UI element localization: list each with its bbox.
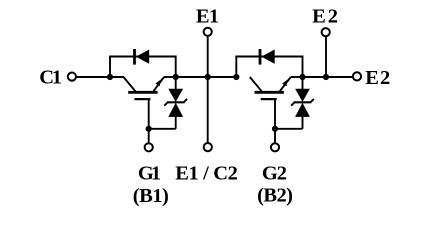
wire center rail E1/C2	[176, 76, 237, 78]
svg-text:G1: G1	[138, 162, 161, 184]
terminal C1	[68, 73, 76, 81]
terminal E1 (top)	[204, 28, 212, 36]
terminal E2 (right)	[353, 72, 361, 80]
node C1 junction	[107, 74, 113, 80]
wire collector-diode loop 1	[110, 57, 176, 79]
wire collector-diode loop 2	[236, 57, 302, 79]
wire E2 rail	[303, 76, 353, 78]
wire E1/C2 bus vertical	[207, 37, 209, 143]
transistor Q2 (IGBT)	[250, 77, 303, 99]
wire gate G2	[274, 99, 276, 142]
svg-text:(B2): (B2)	[257, 185, 293, 207]
diode D2 (free-wheeling, top)	[259, 49, 275, 65]
zener diode pair ZD2 (gate-emitter)	[291, 77, 314, 129]
terminal E2 (top)	[322, 28, 330, 36]
node E2 junction	[299, 74, 305, 80]
wire zener to gate 2	[275, 128, 303, 130]
transistor Q1 (IGBT)	[124, 77, 176, 99]
terminal G1	[145, 143, 153, 151]
svg-text:C1: C1	[39, 66, 62, 88]
node gate junction 2	[272, 126, 278, 132]
terminal E1/C2 (bottom)	[204, 143, 212, 151]
wire gate G1	[148, 99, 150, 142]
wire E2 top stem	[325, 37, 327, 77]
node E2 junction	[323, 74, 329, 80]
svg-text:E1: E1	[196, 5, 219, 27]
diode D1 (free-wheeling, top)	[133, 49, 149, 65]
svg-text:E2: E2	[312, 5, 338, 27]
node E1/C2 junction	[205, 74, 211, 80]
terminal G2	[271, 143, 279, 151]
wire zener to gate 1	[149, 128, 176, 130]
svg-text:(B1): (B1)	[133, 185, 169, 207]
node gate junction 1	[146, 126, 152, 132]
svg-text:E2: E2	[365, 67, 390, 89]
svg-text:E1 / C2: E1 / C2	[175, 163, 238, 185]
wire C1 rail	[77, 76, 124, 78]
svg-text:G2: G2	[262, 162, 287, 184]
zener diode pair ZD1 (gate-emitter)	[164, 77, 187, 129]
node E1 junction	[173, 74, 179, 80]
node C2 junction	[233, 74, 239, 80]
